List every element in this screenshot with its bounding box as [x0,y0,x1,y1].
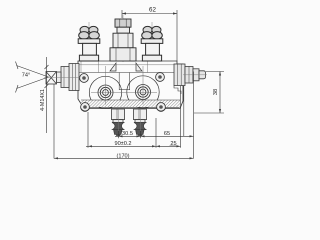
svg-text:38: 38 [213,89,219,95]
svg-text:74°: 74° [22,73,30,79]
svg-text:(170): (170) [116,153,129,159]
svg-text:62: 62 [149,7,156,14]
svg-text:4-M14X1: 4-M14X1 [40,89,46,111]
svg-text:30.5: 30.5 [122,131,133,137]
svg-text:90±0.2: 90±0.2 [114,141,131,147]
svg-text:65: 65 [164,131,170,137]
